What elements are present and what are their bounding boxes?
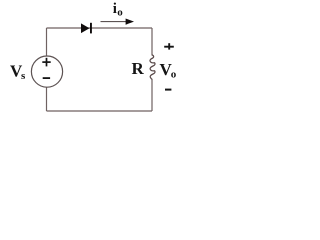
current arrow io <box>101 21 128 23</box>
voltage source Vs circle <box>31 56 62 87</box>
plus sign Vo <box>164 43 174 49</box>
wire right upper <box>151 28 153 56</box>
svg-text:R: R <box>132 59 145 78</box>
wire bottom <box>47 110 153 112</box>
diode D1 triangle <box>81 23 90 33</box>
svg-text:s: s <box>21 70 26 82</box>
wire right lower <box>151 80 153 112</box>
source minus sign <box>43 77 50 79</box>
source plus sign <box>42 58 50 67</box>
wire top <box>47 27 153 29</box>
svg-text:o: o <box>117 6 123 18</box>
svg-text:o: o <box>171 69 177 81</box>
wire left lower <box>46 87 48 111</box>
minus sign Vo <box>165 89 171 91</box>
diode D1 cathode bar <box>90 23 92 34</box>
wire left upper <box>46 28 48 56</box>
resistor R zigzag <box>150 55 155 80</box>
